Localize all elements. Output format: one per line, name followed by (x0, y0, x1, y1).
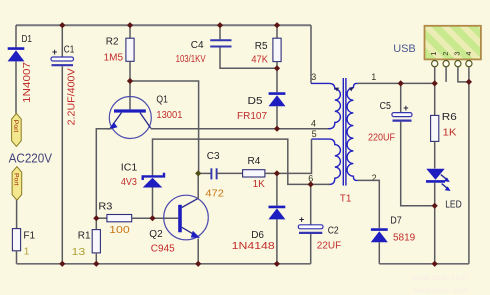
wire USB pin1 to +5V rail (434, 67, 436, 84)
node pin1-R6 (432, 80, 438, 86)
svg-text:103/1KV: 103/1KV (176, 54, 206, 65)
resistor R2 (126, 38, 134, 61)
wire USB pin3 to pin4 (458, 67, 469, 82)
wire pin2 to D7 (358, 180, 379, 228)
node LED bottom (432, 203, 438, 209)
capacitor C5 (electrolytic) (392, 103, 412, 121)
svg-text:C5: C5 (380, 101, 392, 112)
svg-text:F1: F1 (23, 231, 35, 242)
transistor Q1 (108, 97, 151, 139)
wire C5 top lead (400, 83, 402, 112)
capacitor C2 (electrolytic) (298, 215, 323, 233)
wire Q1 collector line to transformer pin 4 (151, 128, 331, 130)
svg-text:R3: R3 (98, 202, 112, 213)
node rail-R1 bottom (93, 261, 99, 267)
connector USB socket body (425, 26, 481, 60)
diode D1 (8, 49, 25, 62)
wire R1 top lead (95, 218, 97, 229)
svg-text:2: 2 (372, 173, 377, 183)
transformer T1 core (343, 78, 346, 186)
pin circle 2 (443, 61, 449, 67)
svg-text:Q1: Q1 (156, 95, 168, 106)
svg-text:5819: 5819 (393, 232, 416, 243)
wire LED bottom lead to rail (434, 183, 436, 264)
svg-text:D5: D5 (248, 96, 263, 107)
svg-text:R5: R5 (255, 41, 268, 52)
svg-text:IC1: IC1 (121, 163, 138, 174)
svg-text:R2: R2 (106, 37, 119, 48)
diode D6 (268, 207, 285, 220)
wire pin3 drop from rail (310, 25, 312, 83)
wire D6 top lead (276, 173, 278, 205)
svg-text:T1: T1 (340, 193, 352, 204)
pin circle 1 (432, 61, 438, 67)
svg-text:LED: LED (445, 200, 462, 211)
svg-text:2: 2 (441, 52, 450, 56)
svg-text:13001: 13001 (156, 110, 182, 121)
wire D5 bottom lead (276, 106, 278, 129)
transistor Q2 (164, 195, 209, 240)
wire C5 bottom lead to LED bottom node (401, 122, 435, 206)
node rail-LED (432, 261, 438, 267)
svg-text:47K: 47K (251, 55, 268, 66)
wire R5 top lead (276, 25, 278, 38)
svg-text:R6: R6 (442, 112, 457, 123)
wire R5 bottom lead (276, 62, 278, 69)
wire R2 top lead (129, 25, 131, 38)
port Port2 (AC input pin) (12, 167, 22, 201)
wire C4 top lead (219, 25, 221, 39)
svg-text:Q2: Q2 (149, 229, 163, 240)
pin circle 4 (466, 61, 472, 67)
wire top HV+ rail (16, 24, 311, 26)
svg-text:472: 472 (205, 188, 224, 199)
svg-text:C4: C4 (191, 40, 204, 51)
svg-text:1: 1 (24, 246, 30, 257)
resistor R1 (92, 230, 100, 253)
resistor R4 (243, 170, 265, 177)
capacitor C3 (211, 168, 216, 179)
LED D8 (426, 169, 451, 191)
svg-text:D1: D1 (22, 34, 33, 45)
wire IC1 bottom lead (152, 188, 154, 219)
polarity mark primary (335, 88, 340, 92)
wire C4 bottom lead and snubber bottom (220, 48, 277, 69)
node rail-C1 (59, 22, 65, 28)
wire C1 top lead (61, 25, 63, 56)
svg-text:13: 13 (72, 247, 86, 258)
capacitor C1 (electrolytic) (51, 47, 74, 65)
wire USB pin4 down right side to rail (468, 67, 470, 264)
svg-text:FR107: FR107 (237, 111, 267, 122)
wire Port2 to F1 (16, 200, 18, 228)
fuse F1 (12, 229, 20, 251)
svg-text:1K: 1K (443, 128, 457, 139)
svg-text:2.2UF/400V: 2.2UF/400V (67, 68, 78, 125)
svg-text:220UF: 220UF (368, 133, 395, 144)
svg-text:1K: 1K (253, 179, 266, 190)
svg-text:1M5: 1M5 (104, 53, 124, 64)
node D5 bottom pin4 (274, 126, 280, 132)
wire USB pin2 stub (445, 67, 447, 82)
wire R6 to LED (434, 141, 436, 168)
svg-text:3: 3 (311, 72, 316, 82)
wire D6 bottom lead (276, 219, 278, 263)
wire C1 bottom lead to rail (61, 66, 63, 264)
resistor R6 (431, 115, 439, 141)
wire R3 left lead (96, 217, 107, 219)
wire R1 bottom lead (95, 253, 97, 264)
polarity mark secondary (349, 88, 354, 92)
node R3-R1 (93, 215, 99, 221)
svg-text:4: 4 (311, 118, 316, 128)
wire F1 to ground rail corner (16, 251, 18, 264)
svg-text:D7: D7 (390, 216, 402, 227)
node rail-Q2 emitter (195, 261, 201, 267)
wire Q1 emitter left then down to R1/R3 node (96, 129, 111, 219)
node pin6-C2 (308, 181, 314, 187)
svg-text:+: + (403, 103, 408, 113)
svg-text:3: 3 (453, 52, 462, 56)
wire C2 bottom lead (310, 234, 312, 264)
transformer T1 primary winding 5-6 (312, 139, 341, 184)
node rail-R2 (127, 22, 133, 28)
port Port1 (AC input pin) (12, 113, 22, 146)
wire secondary bottom rail (379, 263, 469, 265)
svg-text:USB: USB (393, 43, 416, 55)
svg-text:5: 5 (312, 129, 317, 139)
svg-text:+: + (299, 215, 304, 225)
svg-text:C945: C945 (151, 243, 175, 254)
svg-text:1N4007: 1N4007 (22, 61, 33, 103)
wire D7 bottom lead (378, 242, 380, 264)
wire primary bottom rail (17, 263, 311, 265)
svg-text:C3: C3 (207, 151, 220, 162)
svg-text:100: 100 (109, 225, 130, 236)
svg-text:Port: Port (12, 120, 19, 133)
wire D5 top lead (276, 68, 278, 92)
node D5 top (274, 65, 280, 71)
resistor R3 (107, 215, 132, 222)
pin circle 3 (455, 61, 461, 67)
wire Q1 base lead (129, 81, 131, 109)
watermark (411, 273, 468, 295)
node R4-D6 (274, 170, 280, 176)
svg-text:AC220V: AC220V (9, 151, 53, 165)
transformer T1 secondary winding 1-2 (347, 83, 358, 180)
svg-text:1: 1 (371, 72, 376, 82)
svg-text:1N4148: 1N4148 (232, 241, 276, 252)
svg-text:22UF: 22UF (317, 241, 341, 252)
wire R6 top lead (434, 83, 436, 115)
wire R4 right to D6 node and pin5 riser (265, 139, 312, 173)
svg-text:D6: D6 (251, 230, 264, 241)
svg-text:1: 1 (429, 52, 438, 56)
wire D1 top lead from rail (15, 25, 17, 48)
wire zener node: IC1 top right to pin6 net (153, 139, 331, 184)
resistor R5 (273, 38, 281, 61)
wire C3 to R4 (217, 172, 243, 174)
capacitor C4 (210, 40, 231, 46)
svg-text:R4: R4 (248, 156, 261, 167)
node pin3-pin4 (466, 79, 472, 85)
diode D5 (269, 94, 286, 107)
diode D7 (371, 230, 388, 243)
wire secondary top rail pin1 (358, 82, 435, 84)
node rail-D6 bottom (274, 261, 280, 267)
wire Q2 emitter down to rail (197, 239, 199, 264)
node C5 top (398, 80, 404, 86)
svg-text:+: + (52, 47, 57, 57)
wire Q1 base node to C3 (right then down) (130, 81, 199, 173)
svg-text:R1: R1 (78, 231, 91, 242)
wire Q2 collector up to C3 node (197, 173, 199, 198)
svg-text:www.dzsc.com: www.dzsc.com (411, 273, 467, 282)
node IC1-Q2 base (149, 215, 155, 221)
node rail-R5 (274, 22, 280, 28)
wire R2 to Q1 base node (129, 61, 131, 81)
node rail-C4 (217, 22, 223, 28)
wire R3 right to Q2 base (132, 217, 179, 219)
node C3 left (195, 170, 201, 176)
wire C3 left lead (199, 172, 212, 174)
svg-text:Port: Port (12, 173, 19, 186)
svg-text:www.dzsc.com: www.dzsc.com (412, 286, 468, 295)
svg-text:C2: C2 (328, 226, 339, 237)
svg-text:4V3: 4V3 (121, 177, 137, 188)
transformer T1 primary winding 3-4 (311, 83, 340, 128)
zener IC1 (143, 173, 164, 188)
node Q1 base (127, 78, 133, 84)
node rail-C1 bottom (59, 261, 65, 267)
svg-text:C1: C1 (64, 44, 75, 55)
wire D1 to Port1 (15, 61, 17, 113)
wire C2 top lead (310, 184, 312, 224)
svg-text:4: 4 (464, 52, 473, 56)
